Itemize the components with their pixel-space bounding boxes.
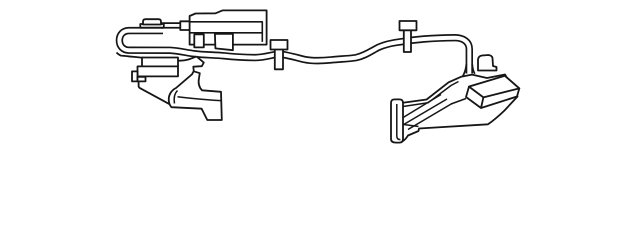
wire: harness tube loop and run (white core): [119, 31, 469, 74]
left bracket plate rectangle upper: [142, 58, 178, 67]
push-pin clip 2 head: [400, 21, 417, 30]
relay box front corner edge: [481, 97, 483, 108]
push-pin clip 1 stem: [275, 49, 283, 70]
wire end flare left: [462, 64, 466, 77]
relay box 3D on right bracket: [466, 76, 519, 108]
left hook (ankle and foot): [169, 56, 222, 120]
right bracket arm: [402, 75, 518, 142]
left hook inner rolled-edge line: [174, 91, 177, 104]
left bracket plate rectangle lower: [138, 66, 179, 76]
connector C1 terminal square small: [194, 34, 204, 47]
connector C1 body: [190, 10, 267, 44]
push-pin clip 1 head: [271, 40, 288, 50]
connector C1 socket: [180, 21, 190, 30]
left bracket side tab step: [138, 77, 146, 82]
connector C1 terminal square large: [215, 34, 233, 50]
neck tube into connector: [161, 22, 181, 28]
right bracket upper crease line: [403, 82, 459, 107]
right bracket inner step line: [402, 124, 419, 126]
right bracket hatch line 2: [402, 99, 447, 126]
right bracket hatch line 3: [408, 104, 452, 130]
wire end flare right: [472, 64, 475, 74]
relay box base line: [451, 99, 466, 105]
push-pin clip 2 stem: [404, 30, 411, 53]
left hook top-face crease line: [178, 97, 221, 101]
hex cap on right bracket: [478, 55, 497, 71]
connector C1 inner line upper: [190, 22, 263, 42]
right bracket hatch line 1: [399, 95, 441, 121]
left bracket side tab: [132, 71, 138, 81]
relay box top face: [469, 76, 519, 98]
left bracket lower diagonal edge: [139, 81, 171, 104]
wire: harness tube loop and run (black outer): [119, 31, 469, 74]
left bracket wavy top edge: [117, 53, 197, 61]
right bracket end tab inner line: [397, 104, 401, 140]
connector C1 inner line lower: [190, 32, 263, 34]
harness clip on loop top: [140, 24, 164, 28]
right bracket end tab: [391, 99, 403, 142]
